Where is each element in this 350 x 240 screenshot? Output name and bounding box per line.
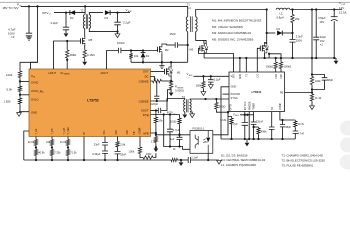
svg-text:CC: CC <box>49 14 52 16</box>
svg-text:33nF: 33nF <box>120 152 126 156</box>
svg-text:4.7nF: 4.7nF <box>298 132 305 136</box>
svg-text:0.006Ω: 0.006Ω <box>175 88 184 92</box>
wire VIN to LT3752 <box>31 6 38 69</box>
svg-text:560Ω: 560Ω <box>219 104 226 108</box>
resistor 13.7k COMP <box>294 120 297 128</box>
wire VAUX to INTVCC cap <box>240 114 254 116</box>
svg-text:HOUT: HOUT <box>49 71 57 75</box>
resistor 499k <box>252 126 254 128</box>
wire PMODE <box>248 112 250 140</box>
wire TS GND pins to rail <box>239 58 241 72</box>
capacitor 3.3nF 250V snubber <box>290 40 296 43</box>
svg-text:M2: VISHAY Si2325DS: M2: VISHAY Si2325DS <box>212 25 243 29</box>
svg-text:CSP: CSP <box>281 74 283 79</box>
svg-text:INTV: INTV <box>42 11 49 15</box>
ground opto rail <box>180 160 182 162</box>
svg-text:100kΩ: 100kΩ <box>266 65 274 69</box>
wire M1 drain <box>170 62 172 67</box>
capacitor SS <box>271 112 273 128</box>
svg-text:0.33µF: 0.33µF <box>92 152 101 156</box>
resistor 100kohm CSN pullup <box>275 70 277 73</box>
wire LT8311 PGOOD stub <box>223 93 230 95</box>
resistor 34k <box>51 137 53 139</box>
svg-text:2.2µF: 2.2µF <box>51 21 59 25</box>
svg-text:68pF: 68pF <box>327 78 333 82</box>
svg-text:15nF: 15nF <box>170 32 177 36</box>
capacitor 2.2nF <box>181 159 188 161</box>
svg-text:31.6k: 31.6k <box>60 140 67 144</box>
svg-text:499k: 499k <box>261 129 267 133</box>
capacitor 220pF sense <box>156 81 158 96</box>
wire HFB pin <box>151 132 156 134</box>
capacitor 4.7uF INTVCC <box>169 115 171 130</box>
svg-text:V_SEC: V_SEC <box>68 127 70 135</box>
svg-text:0.15Ω: 0.15Ω <box>87 53 95 57</box>
svg-text:2.2µF: 2.2µF <box>123 20 131 24</box>
svg-text:PGOOD: PGOOD <box>231 92 241 96</box>
capacitor 33nF SS1 <box>104 137 106 143</box>
svg-text:T2: BH ELECTRONICS L00-3250: T2: BH ELECTRONICS L00-3250 <box>282 158 326 162</box>
resistor 22.6k <box>35 137 37 139</box>
inductor L1 6.8uH <box>276 8 290 9</box>
capacitor 0.33uF SS1 <box>102 151 108 153</box>
svg-text:SCP: SCP <box>127 129 129 134</box>
resistor 499ohm <box>66 41 68 49</box>
wire M3 gate to FG <box>199 48 234 72</box>
wire primary bottom rail <box>24 159 170 161</box>
wire opto LED cathode <box>207 153 209 160</box>
wire T1 secondary top to output line <box>196 10 267 17</box>
svg-text:M1: M1 <box>177 71 181 75</box>
svg-text:16V: 16V <box>320 39 325 43</box>
resistor 100k VAUX <box>202 76 204 80</box>
resistor 40.9k <box>34 149 37 157</box>
wire SOUT line <box>151 110 159 112</box>
resistor 10k M2 gate <box>130 51 132 53</box>
svg-text:LT3752: LT3752 <box>87 99 99 103</box>
resistor 11.3k feedback <box>310 93 313 102</box>
svg-text:2k: 2k <box>154 76 157 80</box>
svg-text:D4: CENTRAL SEMI CMMR1U-02: D4: CENTRAL SEMI CMMR1U-02 <box>221 158 266 162</box>
svg-text:AUX: AUX <box>235 114 239 117</box>
svg-text:470µF: 470µF <box>318 16 326 20</box>
svg-text:AOUT: AOUT <box>101 71 109 75</box>
svg-text:40.9k: 40.9k <box>38 151 45 155</box>
resistor 2.8k SS2 <box>117 137 119 141</box>
svg-text:220pF: 220pF <box>151 102 159 106</box>
wire UVLO tap <box>19 79 21 86</box>
svg-text:T2: T2 <box>81 10 85 13</box>
svg-text:100k: 100k <box>196 84 202 88</box>
svg-text:22µF: 22µF <box>320 35 327 39</box>
capacitor 68pF COMP <box>282 120 284 125</box>
svg-text:SYNC: SYNC <box>31 80 39 84</box>
diode D3 BAS516 <box>105 10 110 15</box>
transistor M3 forward rectifier <box>199 46 201 51</box>
ground M5 source <box>82 62 87 66</box>
op-amp U2 LT8311 secondary controller <box>229 72 285 112</box>
resistor 10k SOUT <box>155 111 157 117</box>
svg-text:T_AS: T_AS <box>35 128 38 134</box>
capacitor 2.2uF INTVCC <box>65 13 67 27</box>
svg-text:100kΩ: 100kΩ <box>284 65 292 69</box>
svg-text:LT8311: LT8311 <box>252 90 262 94</box>
svg-text:AUX: AUX <box>189 74 193 77</box>
op-amp U1 LT3752 controller block <box>29 69 151 137</box>
watermark circles <box>340 121 350 136</box>
svg-text:CSENSE: CSENSE <box>139 100 149 103</box>
page top border <box>0 1 350 3</box>
resistor 1.3k <box>155 124 157 136</box>
svg-text:10k: 10k <box>158 119 163 123</box>
svg-text:2.2µF: 2.2µF <box>214 78 221 82</box>
wire T3 secondary top to SYNC <box>190 98 229 101</box>
svg-text:M4: M4 <box>264 44 268 48</box>
wire INTVCC line <box>151 114 180 116</box>
svg-text:18V TO 72V: 18V TO 72V <box>2 6 18 10</box>
resistor 100k UVLO divider <box>19 62 21 70</box>
ground RSENSE <box>169 93 174 97</box>
svg-text:PMODE: PMODE <box>249 101 251 110</box>
svg-text:M2: M2 <box>165 48 169 52</box>
wire T2 secondary return <box>89 29 117 32</box>
svg-text:6.8µH: 6.8µH <box>277 16 284 20</box>
resistor 0.15ohm M5 source <box>84 45 86 49</box>
svg-text:7.32k: 7.32k <box>54 151 61 155</box>
capacitor 2.2uF VAUX <box>210 76 212 79</box>
resistor 100k FB <box>139 137 141 147</box>
wire GND pin <box>20 105 29 112</box>
svg-text:1k: 1k <box>173 147 176 151</box>
svg-text:FB: FB <box>134 131 136 134</box>
svg-text:1.82k: 1.82k <box>4 100 12 104</box>
svg-text:FG: FG <box>234 74 236 77</box>
ground T3 secondary <box>190 112 192 114</box>
resistor 100ohm <box>179 115 181 118</box>
capacitor 470uF 16V output <box>333 10 335 17</box>
svg-text:33nF: 33nF <box>94 143 100 147</box>
wire M3 source to rail <box>203 53 205 58</box>
transistor M1 main switch <box>151 71 165 73</box>
wire T1 secondary bottom to M3 <box>196 32 204 44</box>
wire M4 drain to switch node <box>266 10 268 44</box>
capacitor 68pF feedback <box>312 75 325 78</box>
wire RT pin <box>83 137 85 161</box>
svg-text:12.5A: 12.5A <box>339 11 347 15</box>
svg-text:TIMER: TIMER <box>254 103 256 110</box>
svg-text:5.9k: 5.9k <box>7 88 13 92</box>
wire T2 secondary top to D3 <box>89 13 103 15</box>
wire M5 gate to HOUT <box>54 41 81 69</box>
svg-text:OPTO: OPTO <box>231 104 233 111</box>
svg-text:11.3k: 11.3k <box>315 96 322 100</box>
svg-text:12V: 12V <box>339 6 344 10</box>
svg-text:D1, D2, D3: BAS516: D1, D2, D3: BAS516 <box>221 153 248 157</box>
diode D4 catch <box>267 32 276 34</box>
svg-text:71.5k: 71.5k <box>70 151 77 155</box>
svg-text:DC: DC <box>145 75 149 79</box>
svg-text:100k: 100k <box>315 79 321 83</box>
ground feedback divider <box>310 106 315 110</box>
svg-text:22.6k: 22.6k <box>28 140 35 144</box>
svg-text:L1: CHAMPS PQ2050-6R8: L1: CHAMPS PQ2050-6R8 <box>221 163 256 167</box>
capacitor 1uF opto <box>177 137 183 139</box>
ground LT8311 rail <box>246 139 248 143</box>
resistor 20k snubber <box>292 10 294 14</box>
svg-text:AUX: AUX <box>128 10 133 13</box>
svg-text:L1: L1 <box>280 12 283 16</box>
svg-text:T1: CHAMPS G45R2_0404.04D: T1: CHAMPS G45R2_0404.04D <box>282 154 323 158</box>
svg-text:100Ω: 100Ω <box>170 119 176 123</box>
svg-text:100k: 100k <box>129 149 135 153</box>
svg-text:250V: 250V <box>296 38 302 42</box>
svg-text:499Ω: 499Ω <box>70 53 77 57</box>
wire secondary return rail <box>204 57 336 59</box>
wire INTVCC line <box>54 12 85 14</box>
ground secondary small-signal <box>217 160 222 164</box>
svg-text:3.16k: 3.16k <box>220 118 227 122</box>
svg-text:2.8k: 2.8k <box>120 142 126 146</box>
svg-text:D2: D2 <box>70 16 74 20</box>
svg-text:3.3nF: 3.3nF <box>296 35 303 39</box>
resistor 100kohm CSP pullup <box>280 70 282 73</box>
wire M2 gate line <box>131 49 158 50</box>
ground output rail <box>335 58 337 61</box>
wire T1 primary bottom to clamp node <box>187 32 189 63</box>
svg-text:100k: 100k <box>146 152 152 156</box>
wire LT8311 GND <box>221 87 229 139</box>
svg-text:13.7k: 13.7k <box>298 122 305 126</box>
resistor 3.16k opto pullup <box>228 116 232 119</box>
capacitor 220nF TIMER <box>253 112 255 123</box>
svg-text:M3: M3 <box>189 47 193 51</box>
wire CSENSE- line <box>151 90 172 101</box>
ground GND pin <box>17 113 22 117</box>
svg-text:M5: DIODES INC. ZVN4525E6: M5: DIODES INC. ZVN4525E6 <box>212 38 254 42</box>
svg-text:CG: CG <box>257 74 259 78</box>
wire M4 gate to CG <box>257 48 260 72</box>
diode D2 BAS516 <box>70 10 75 15</box>
resistor 100k comp horizontal <box>142 156 154 159</box>
wire opto LED anode to OPTO pin <box>213 112 228 135</box>
svg-text:TS: TS <box>246 74 248 77</box>
wire output line <box>290 9 342 11</box>
resistor 71.5k <box>66 149 69 157</box>
svg-text:PS2801-1: PS2801-1 <box>193 126 205 130</box>
wire FB node <box>311 86 313 94</box>
svg-text:CSENSE: CSENSE <box>139 80 149 83</box>
capacitor 4.7uF 100V x3 input <box>28 6 30 33</box>
ground M2 <box>161 62 163 65</box>
wire LT8311 ground rail <box>221 138 295 140</box>
svg-text:10k: 10k <box>134 54 139 58</box>
resistor 1k opto <box>170 158 178 161</box>
capacitor SOUT coupling <box>158 108 160 114</box>
resistor 100k feedback <box>311 10 313 75</box>
transistor M4 catch rectifier <box>259 46 261 51</box>
svg-text:T_A,B,: T_A,B, <box>63 127 66 134</box>
wire LT8311 VIN to VAUX <box>194 75 230 77</box>
svg-text:1µF: 1µF <box>170 137 175 141</box>
svg-text:SOUT: SOUT <box>141 109 149 113</box>
svg-text:INTVCC: INTVCC <box>245 101 247 110</box>
svg-text:SS1: SS1 <box>104 129 106 134</box>
ground T3 primary <box>184 112 186 114</box>
capacitor 4.7uF LT8311 INTVCC <box>242 123 248 126</box>
svg-text:GND: GND <box>240 74 242 79</box>
wire VIN bus <box>21 5 188 7</box>
wire DC pin stub <box>151 77 155 82</box>
transistor M2 active clamp <box>157 47 159 52</box>
svg-text:M5: M5 <box>89 38 93 42</box>
wire M1 source to Rsense <box>170 76 172 80</box>
svg-text:COMP: COMP <box>280 103 282 110</box>
svg-text:GND: GND <box>231 85 237 89</box>
svg-text:HFB: HFB <box>143 131 149 135</box>
wire clamp bottom rail <box>131 61 188 63</box>
diode D1 BAS516 <box>142 51 144 53</box>
svg-text:20k: 20k <box>295 17 300 21</box>
svg-text:D4: D4 <box>277 27 281 31</box>
wire opto collector to HFB chain <box>156 134 190 136</box>
resistor 5.9k <box>18 85 21 93</box>
wire INTVCC return to opto emitter <box>164 115 190 150</box>
svg-text:COMP: COMP <box>140 127 142 134</box>
resistor 7.32k <box>50 149 53 157</box>
svg-text:M1, M4: INFINEON BSC077N12NS3: M1, M4: INFINEON BSC077N12NS3 <box>212 18 262 22</box>
transistor M5 bias switch <box>84 29 86 37</box>
svg-text:2.2nF: 2.2nF <box>191 156 198 160</box>
svg-text:OVLO: OVLO <box>31 98 38 102</box>
wire OVLO tap <box>19 93 21 98</box>
svg-text:×2: ×2 <box>320 43 324 47</box>
svg-text:FB: FB <box>280 91 284 95</box>
svg-text:220nF: 220nF <box>256 119 264 123</box>
svg-text:GND: GND <box>31 111 37 115</box>
svg-text:SS: SS <box>272 106 274 110</box>
wire M4 source <box>264 53 266 58</box>
svg-text:1.3k: 1.3k <box>151 139 157 143</box>
resistor RSENSE 0.006ohm <box>169 80 172 89</box>
svg-text:34k: 34k <box>46 140 51 144</box>
ground SOUT divider <box>155 146 157 149</box>
resistor 1.82k <box>18 97 21 105</box>
capacitor 2.2uF VAUX <box>117 13 119 22</box>
capacitor 33nF SS2 <box>117 148 119 151</box>
capacitor 22uF 16V x2 output <box>315 10 317 38</box>
svg-text:D3: D3 <box>105 16 109 20</box>
svg-text:16V: 16V <box>320 20 325 24</box>
resistor 31.6k <box>67 137 69 139</box>
svg-text:100k: 100k <box>6 73 13 77</box>
svg-text:4.7µF: 4.7µF <box>173 128 180 132</box>
svg-text:D1: D1 <box>146 54 150 58</box>
capacitor 4.7nF COMP <box>294 128 296 131</box>
svg-text:OUT: OUT <box>143 70 149 74</box>
svg-text:4.7µF: 4.7µF <box>231 122 238 126</box>
resistor 2k sense filter <box>152 79 163 82</box>
svg-text:T3: PULSE PE-68386NL: T3: PULSE PE-68386NL <box>282 163 314 167</box>
svg-text:SYNC: SYNC <box>231 96 238 100</box>
COMP network <box>280 112 295 121</box>
svg-text:T_OS: T_OS <box>52 128 54 134</box>
svg-text:SS2: SS2 <box>116 129 118 134</box>
svg-text:CSN: CSN <box>276 74 278 79</box>
svg-text:68pF: 68pF <box>285 125 291 129</box>
svg-text:×3: ×3 <box>11 35 15 39</box>
svg-text:M3: FAIRCHILD FDMS86101: M3: FAIRCHILD FDMS86101 <box>212 31 252 35</box>
resistor 560ohm <box>215 99 217 102</box>
svg-text:SENSE: SENSE <box>64 74 71 76</box>
svg-text:100nF: 100nF <box>117 41 125 45</box>
